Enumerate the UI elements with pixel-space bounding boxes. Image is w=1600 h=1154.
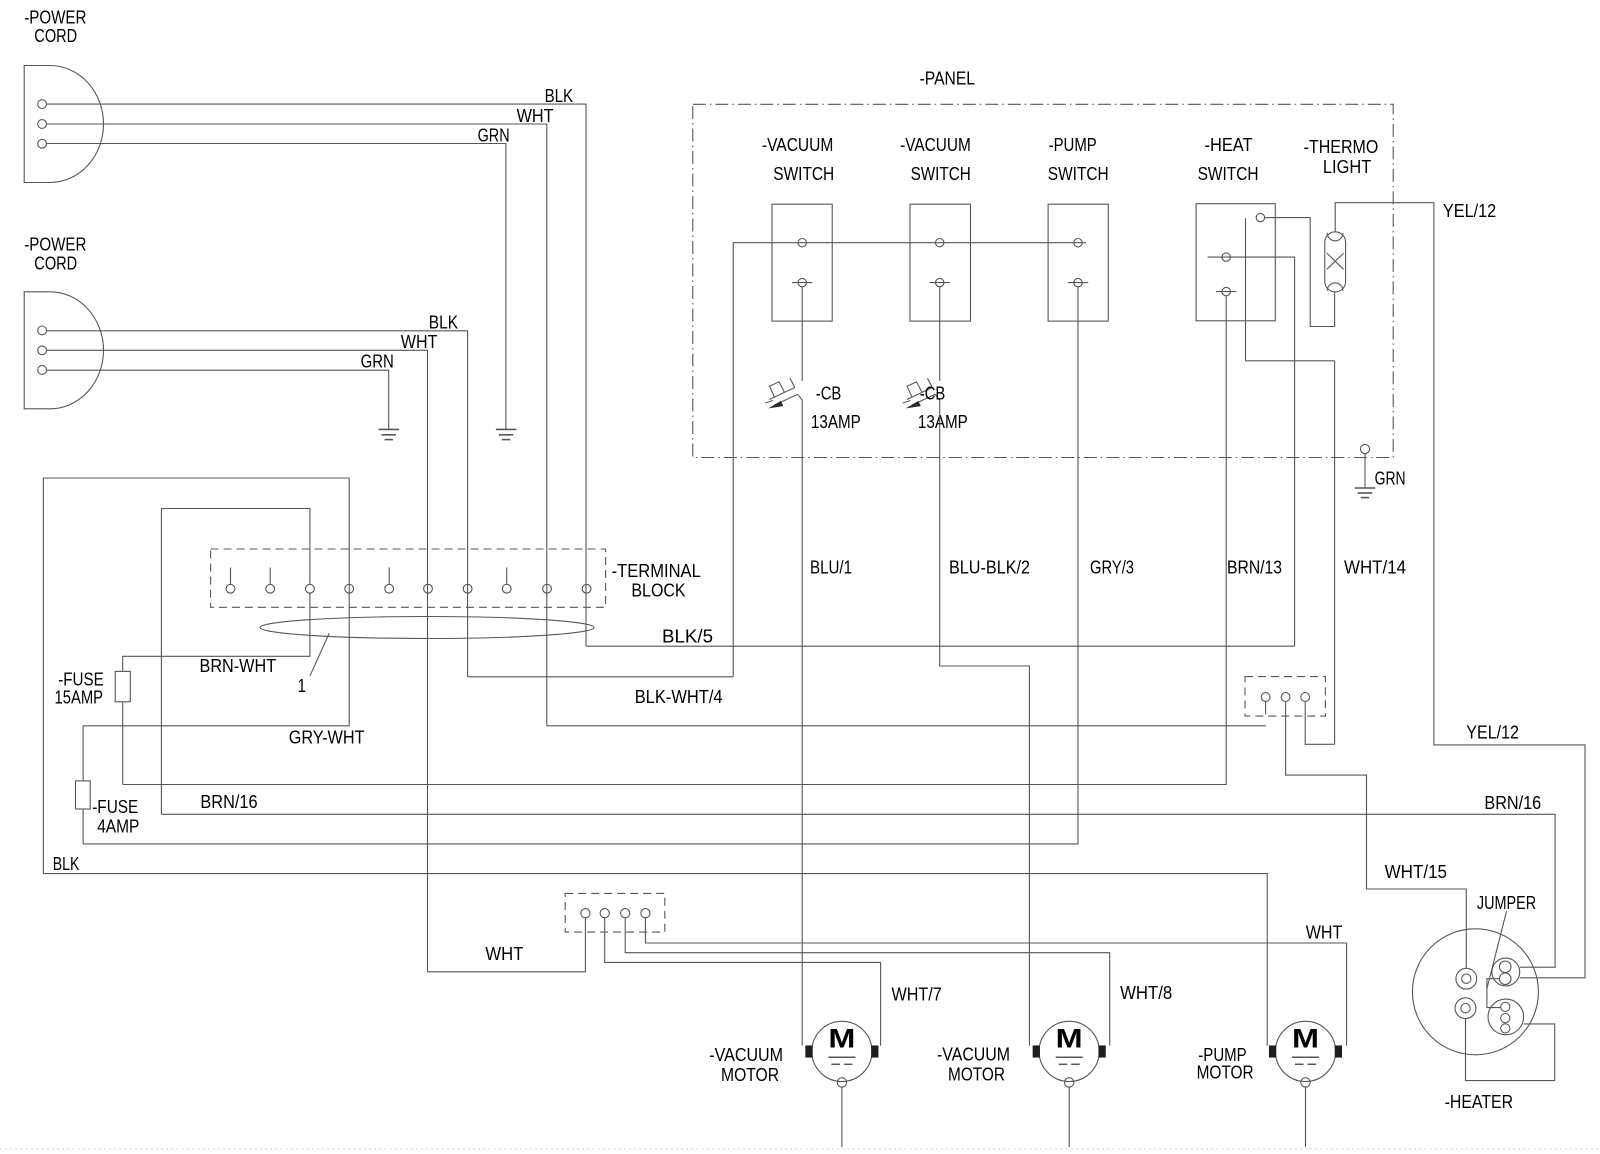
vacuum motor M2 (1033, 1021, 1105, 1087)
svg-text:CORD: CORD (34, 252, 77, 273)
svg-text:-CB: -CB (816, 383, 842, 404)
svg-text:WHT: WHT (401, 331, 438, 352)
label -FUSE 15AMP (F1) (55, 669, 104, 708)
label YEL/12 (top) (1443, 200, 1496, 221)
svg-text:GRY-WHT: GRY-WHT (289, 727, 365, 748)
svg-text:MOTOR: MOTOR (1197, 1062, 1254, 1083)
svg-text:BRN/16: BRN/16 (1484, 792, 1541, 813)
svg-text:GRY/3: GRY/3 (1090, 557, 1134, 578)
wire WHT/15 (connector J2 pin 2 to heater) (1286, 716, 1467, 968)
svg-text:BLK/5: BLK/5 (662, 626, 713, 647)
svg-text:WHT: WHT (1306, 922, 1343, 943)
wire BLU/1 (CB1 to vacuum motor M1) (802, 400, 852, 1046)
label -CB 13AMP (CB1) (811, 383, 861, 433)
wire vacuum switch S1 bottom pin to CB1 (801, 287, 803, 381)
svg-text:-VACUUM: -VACUUM (709, 1044, 783, 1065)
ground (cord P1 GRN) (496, 429, 516, 439)
svg-text:WHT/7: WHT/7 (892, 984, 942, 1005)
wire motor bottom lead (M3) (1305, 1087, 1307, 1147)
fuse F2 4AMP (76, 781, 91, 809)
svg-text:SWITCH: SWITCH (1198, 163, 1259, 184)
wire BLU-BLK/2 (CB2 to vacuum motor M2) (940, 400, 1030, 1046)
power cord P1 (24, 66, 103, 183)
wire fuse F2 to GRY/3 net (82, 809, 84, 844)
label -POWER CORD (P2) (24, 234, 86, 274)
label JUMPER (1477, 892, 1536, 989)
svg-text:WHT: WHT (485, 943, 523, 964)
wire GRN (cord P1 to ground) (47, 125, 510, 430)
jumper wire (heater) (1487, 979, 1501, 1008)
pump switch S3 (1048, 204, 1108, 321)
wire WHT/14 (heat switch S4 to connector J2 pin 3) (1335, 361, 1406, 745)
svg-text:JUMPER: JUMPER (1477, 892, 1536, 913)
svg-text:-VACUUM: -VACUUM (762, 134, 834, 155)
wire WHT (connector J1 pin 4 to pump motor M3) (645, 918, 1346, 1046)
svg-text:-PUMP: -PUMP (1049, 134, 1097, 155)
svg-text:GRN: GRN (478, 125, 510, 146)
label -VACUUM SWITCH (S1) (762, 134, 834, 184)
wire GRY/3 (pump switch S3 to fuse F2 net) (83, 287, 1134, 844)
circuit breaker CB2 (903, 378, 940, 408)
label -VACUUM SWITCH (S2) (900, 134, 971, 184)
wire BLK (main feed: terminal pin 4 riser to pump motor M3) (43, 478, 1267, 1046)
vacuum switch S2 (910, 204, 971, 321)
svg-text:BLK: BLK (545, 85, 574, 106)
wire WHT (cord P2 WHT to connector J1 pin 1) (428, 918, 586, 972)
svg-text:SWITCH: SWITCH (773, 163, 834, 184)
vacuum switch S1 (772, 204, 832, 321)
connector J1 (4-pin) (565, 893, 665, 932)
svg-text:SWITCH: SWITCH (911, 163, 971, 184)
circuit breaker CB1 (765, 378, 802, 408)
svg-text:LIGHT: LIGHT (1323, 156, 1371, 177)
svg-text:-HEATER: -HEATER (1445, 1091, 1514, 1112)
svg-text:-THERMO: -THERMO (1304, 136, 1379, 157)
svg-text:BLK: BLK (53, 853, 80, 874)
wire vacuum switch S2 bottom pin to CB2 (939, 287, 941, 381)
svg-text:-TERMINAL: -TERMINAL (612, 560, 701, 581)
svg-text:SWITCH: SWITCH (1048, 163, 1109, 184)
svg-text:BLOCK: BLOCK (631, 580, 686, 601)
thermo light DS1 (1325, 232, 1346, 292)
svg-text:GRN: GRN (1375, 468, 1406, 489)
label YEL/12 (right) (1466, 722, 1519, 743)
wire GRY-WHT (terminal pin 4 to fuse F2) (83, 478, 365, 781)
svg-text:-CB: -CB (920, 383, 946, 404)
power cord P2 (24, 292, 103, 409)
label -HEATER (1445, 1091, 1514, 1112)
svg-text:BLU/1: BLU/1 (810, 557, 852, 578)
wire YEL/12 (thermo light top to heater) (1335, 203, 1585, 978)
wire motor bottom lead (M2) (1068, 1087, 1070, 1147)
wire motor bottom lead (M1) (841, 1087, 843, 1147)
wire BRN/16 (terminal pin 3 riser, left) (161, 509, 310, 815)
label -VACUUM MOTOR (M1) (709, 1044, 783, 1085)
svg-text:BLU-BLK/2: BLU-BLK/2 (949, 557, 1030, 578)
wire panel feed bus (BLK-WHT/4 riser to switch top pins) (733, 243, 1086, 677)
wire BLK/5 (cord P1 BLK to heat switch middle pin net) (586, 626, 1295, 647)
svg-text:MOTOR: MOTOR (948, 1064, 1005, 1085)
pump motor M3 (1270, 1021, 1342, 1087)
svg-text:13AMP: 13AMP (811, 411, 861, 432)
heat switch S4 (1196, 204, 1275, 321)
wire WHT (terminal pin 9 to connector J2 pin 1) (547, 725, 1266, 727)
ground GRN (panel) (1355, 444, 1406, 497)
wire BLK (cord P1 to node BLK/5) (47, 85, 587, 646)
label -PUMP MOTOR (M3) (1197, 1044, 1254, 1083)
heat switch internal wire to WHT/14 (1246, 218, 1335, 361)
wire BRN/13 (heat switch S4 bottom pin to fuse F1 net) (123, 296, 1282, 785)
wire connector J2 pin 3 to WHT/14 (1305, 716, 1334, 744)
svg-text:4AMP: 4AMP (97, 816, 139, 837)
svg-text:WHT: WHT (517, 105, 554, 126)
svg-text:BRN-WHT: BRN-WHT (200, 655, 277, 676)
wire heater element loop (1466, 1019, 1555, 1081)
wire heat switch S4 middle pin to BLK/5 net (1208, 257, 1295, 646)
svg-text:1: 1 (298, 675, 307, 696)
vacuum motor M1 (806, 1021, 878, 1087)
svg-text:YEL/12: YEL/12 (1443, 200, 1496, 221)
svg-text:15AMP: 15AMP (55, 687, 104, 708)
label -FUSE 4AMP (F2) (92, 796, 139, 837)
svg-text:-HEAT: -HEAT (1205, 134, 1253, 155)
label -HEAT SWITCH (S4) (1198, 134, 1259, 184)
wire GRN (cord P2 to ground) (47, 351, 394, 430)
terminal block TB1 (211, 549, 606, 607)
wire BRN-WHT (terminal pin 3 to fuse F1) (123, 593, 310, 676)
svg-text:WHT/14: WHT/14 (1344, 557, 1406, 578)
svg-text:-FUSE: -FUSE (92, 796, 138, 817)
svg-text:-PANEL: -PANEL (920, 68, 975, 89)
label -TERMINAL BLOCK (612, 560, 701, 601)
svg-text:BRN/16: BRN/16 (200, 791, 257, 812)
svg-text:WHT/15: WHT/15 (1385, 861, 1447, 882)
svg-text:M: M (828, 1023, 855, 1053)
wire BRN/16 (long run to heater) (161, 791, 1555, 967)
svg-text:WHT/8: WHT/8 (1120, 982, 1172, 1003)
fuse F1 15AMP (115, 671, 130, 701)
svg-text:13AMP: 13AMP (918, 411, 968, 432)
heater HTR1 (1412, 929, 1538, 1055)
svg-text:-VACUUM: -VACUUM (900, 134, 971, 155)
svg-text:MOTOR: MOTOR (721, 1064, 779, 1085)
svg-text:YEL/12: YEL/12 (1466, 722, 1519, 743)
harness ellipse callout 1 (260, 617, 594, 697)
panel boundary (693, 104, 1393, 457)
svg-text:GRN: GRN (361, 351, 394, 372)
ground (cord P2 GRN) (379, 429, 399, 439)
svg-text:BLK-WHT/4: BLK-WHT/4 (635, 686, 723, 707)
wire heat switch S4 top pin to thermo light bottom (1265, 218, 1335, 327)
wire fuse F1 to BRN/13 net (122, 702, 124, 785)
label -PUMP SWITCH (S3) (1048, 134, 1109, 184)
label -CB 13AMP (CB2) (918, 383, 968, 433)
wire BLK (cord P2 to terminal pin 7 / BLK-WHT/4) (47, 311, 468, 677)
label -VACUUM MOTOR (M2) (937, 1044, 1010, 1085)
wire BLK-WHT/4 (terminal pin 7 to panel bus) (468, 677, 734, 707)
wire WHT/7 (connector J1 pin 2 to vacuum motor M1) (605, 918, 942, 1046)
label -THERMO LIGHT (1304, 136, 1379, 177)
wire WHT (cord P1 to terminal pin 9) (47, 105, 554, 726)
svg-text:BLK: BLK (429, 311, 459, 332)
wire WHT (cord P2 to terminal pin 6 / connector J1) (47, 331, 438, 972)
wire WHT/8 (connector J1 pin 3 to vacuum motor M2) (625, 918, 1172, 1046)
connector J2 (3-pin) (1245, 677, 1325, 717)
svg-text:CORD: CORD (34, 25, 77, 46)
svg-text:-VACUUM: -VACUUM (937, 1044, 1010, 1065)
svg-text:M: M (1056, 1023, 1083, 1053)
svg-text:M: M (1292, 1023, 1319, 1053)
svg-text:BRN/13: BRN/13 (1227, 557, 1282, 578)
label -PANEL (920, 68, 975, 89)
label -POWER CORD (P1) (24, 6, 86, 46)
